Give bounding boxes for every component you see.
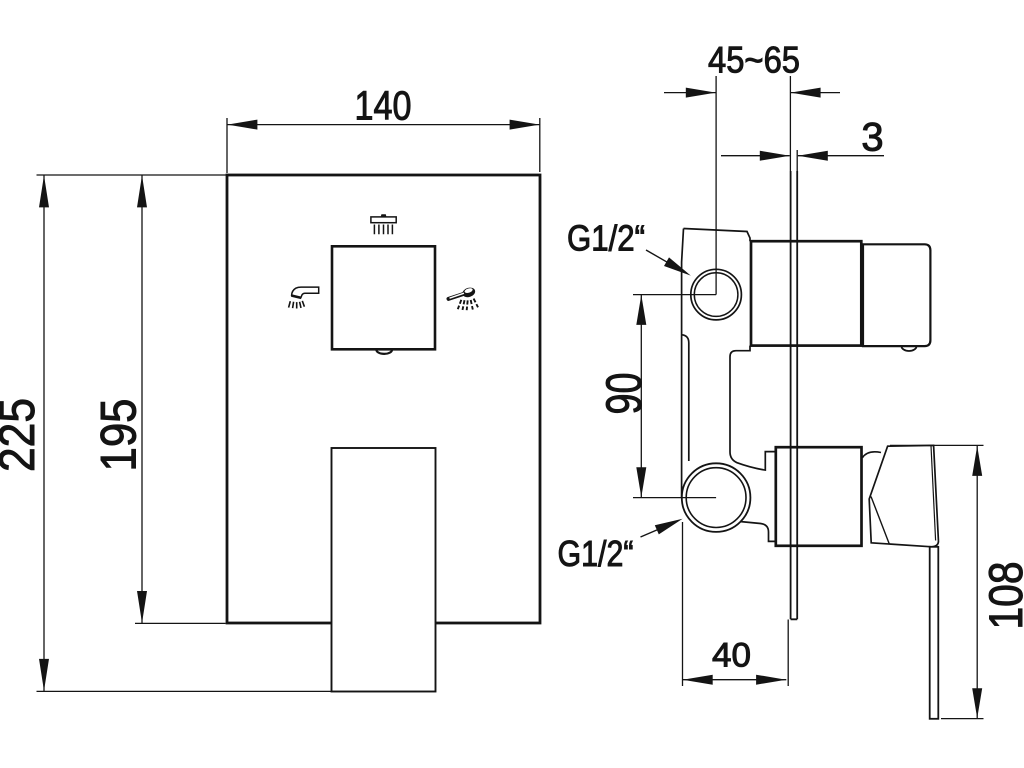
dim 140 arrow left (227, 120, 257, 130)
svg-text:108: 108 (979, 562, 1024, 630)
dim 45~65 arrow right (791, 88, 821, 98)
handle arc (862, 452, 881, 458)
pivot bump (376, 350, 392, 354)
hand shower icon left (289, 287, 319, 308)
upper port circles (691, 269, 742, 320)
upper housing box (751, 241, 861, 345)
cap bump (901, 341, 916, 351)
lower port circles (682, 463, 751, 532)
dim 90 arrow top (636, 295, 646, 325)
dim 45~65 extension lines (716, 76, 797, 295)
front plate (227, 175, 540, 623)
dim 225 extension lines (37, 175, 332, 691)
dim 225 arrow top (39, 175, 49, 207)
dim 140 arrow right (510, 120, 540, 130)
dim 3 line (721, 155, 884, 157)
svg-text:225: 225 (0, 398, 45, 472)
valve body side view (682, 229, 776, 542)
svg-text:90: 90 (596, 373, 652, 415)
sleeve box (776, 447, 862, 546)
svg-text:40: 40 (712, 637, 751, 675)
dim 225 arrow bottom (39, 659, 49, 691)
dim 140 line (227, 124, 540, 126)
dim 225 line (43, 175, 45, 691)
dim 195 arrow top (137, 175, 147, 207)
svg-text:140: 140 (355, 83, 412, 129)
hand shower icon right (449, 286, 479, 310)
handle cone (869, 445, 938, 546)
svg-text:45~65: 45~65 (708, 40, 800, 81)
dim 108 arrow bottom (972, 688, 982, 718)
dim 3 arrow left (760, 151, 790, 161)
dim 45~65 line (664, 92, 840, 94)
G1/2 upper leader (646, 250, 670, 264)
svg-text:G1/2“: G1/2“ (558, 533, 634, 574)
G1/2 lower arrowhead (655, 519, 683, 535)
svg-text:195: 195 (91, 399, 147, 472)
dim 90 extension lines (633, 295, 716, 498)
dim 195 extension line (135, 622, 226, 624)
cap box (863, 244, 930, 346)
dim 3 arrow right (798, 151, 828, 161)
dim 108 extension lines (890, 445, 984, 718)
svg-text:G1/2“: G1/2“ (567, 218, 645, 259)
G1/2 lower leader (641, 529, 661, 537)
dim 195 arrow bottom (137, 591, 147, 623)
overhead shower icon (371, 214, 396, 234)
lever bar side (930, 547, 939, 719)
dim 40 extension lines (683, 522, 789, 686)
dim 45~65 arrow left (686, 88, 716, 98)
dim 195 line (141, 175, 143, 623)
svg-text:3: 3 (861, 116, 883, 160)
dim 40 arrow left (683, 675, 713, 685)
wall plate (791, 171, 798, 619)
dim 40 arrow right (756, 675, 786, 685)
dim 40 line (683, 679, 787, 681)
G1/2 upper arrowhead (664, 257, 691, 275)
dim 90 line (640, 295, 642, 498)
dim 108 arrow top (972, 446, 982, 476)
dim 140 extension lines (227, 118, 540, 173)
dim 90 arrow bottom (636, 467, 646, 497)
dim 108 line (976, 445, 978, 718)
function square (332, 246, 435, 349)
lever handle front (332, 448, 436, 692)
